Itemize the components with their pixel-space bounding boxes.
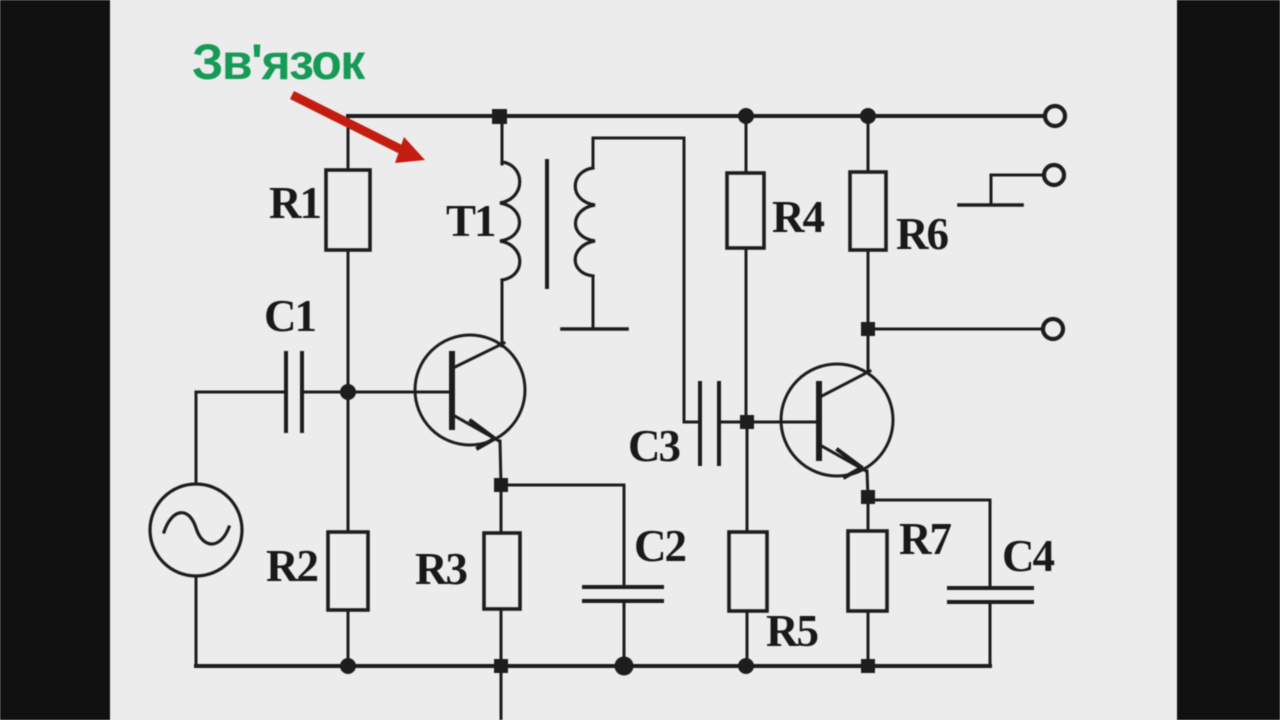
- svg-text:R1: R1: [269, 178, 320, 228]
- resistor R4: [727, 173, 764, 248]
- wire emitter node to C2: [501, 485, 624, 587]
- wire secondary to C3: [684, 138, 700, 422]
- node base of Q1 / C1 junction: [340, 384, 356, 400]
- node T1 primary at rail: [492, 109, 507, 124]
- resistor R5: [729, 532, 767, 611]
- wire T1 secondary bottom: [592, 276, 595, 329]
- wire R3 to ground rail: [500, 609, 503, 666]
- wire R7 to ground rail: [867, 611, 870, 666]
- wire C2 to ground rail: [623, 601, 626, 666]
- wire ground rail: [196, 664, 990, 668]
- wire T1 primary to Q1 collector: [501, 280, 504, 346]
- wire R6 to collector node: [867, 250, 870, 329]
- wire rail to R6: [867, 116, 870, 172]
- transistor Q2 collector stroke: [820, 371, 870, 397]
- wire T1 secondary top: [593, 138, 684, 168]
- node R3 at ground rail: [494, 659, 508, 673]
- transformer T1 secondary winding: [575, 168, 595, 276]
- node Q1 emitter junction: [494, 478, 508, 492]
- transistor Q1 collector stroke: [453, 343, 504, 368]
- capacitor C2: [584, 587, 662, 601]
- svg-text:C2: C2: [634, 521, 685, 571]
- resistor R2: [328, 532, 368, 610]
- svg-text:R3: R3: [415, 544, 466, 594]
- node R7 at ground rail: [861, 659, 875, 673]
- wire stub below ground rail: [500, 666, 503, 720]
- wire rail to T1 primary: [501, 116, 504, 164]
- wire emitter node to R3: [500, 485, 503, 533]
- node R5 at ground rail: [738, 658, 754, 674]
- ground bar at OUT2: [959, 203, 1022, 207]
- transistor Q2 body: [781, 364, 893, 476]
- node R2 at ground rail: [340, 658, 356, 674]
- terminal OUT1: [1045, 106, 1065, 126]
- terminal OUT3: [1043, 319, 1063, 339]
- wire emitter node to C4: [868, 500, 990, 588]
- wire R1 bottom to node: [347, 250, 350, 392]
- wire node to R2: [347, 392, 350, 532]
- wire Q2 emitter down: [867, 471, 868, 497]
- svg-text:R5: R5: [766, 606, 817, 656]
- wire node to Q2 collector: [867, 329, 870, 372]
- wire input top: [196, 391, 286, 394]
- svg-text:R7: R7: [899, 514, 951, 564]
- wire C1 to Q1 base: [302, 391, 452, 394]
- svg-text:R2: R2: [266, 541, 317, 591]
- wire source top lead: [195, 392, 198, 484]
- AC source sine wave: [164, 513, 229, 544]
- svg-text:R4: R4: [772, 192, 824, 242]
- wire R1 branch from rail: [347, 116, 350, 170]
- svg-text:T1: T1: [446, 196, 495, 246]
- wire node to Q2 base: [747, 421, 819, 424]
- transformer T1 core: [545, 161, 549, 287]
- node C2 at ground rail: [615, 657, 634, 676]
- svg-text:C4: C4: [1002, 531, 1054, 581]
- transistor Q2 emitter stroke with arrow: [820, 445, 866, 471]
- terminal OUT2: [1044, 165, 1064, 185]
- capacitor C4: [949, 588, 1032, 602]
- resistor R1: [326, 170, 370, 250]
- wire Q1 emitter down: [500, 441, 501, 485]
- svg-text:R6: R6: [896, 209, 948, 259]
- wire C3 to node: [719, 421, 747, 424]
- wire OUT2 step down: [990, 175, 993, 205]
- wire C4 to ground rail: [989, 602, 992, 666]
- node Q2 collector junction: [861, 322, 875, 336]
- wire node to R5: [746, 422, 749, 532]
- wire OUT2 lead: [991, 174, 1043, 177]
- annotation arrow: [296, 97, 402, 150]
- capacitor C1: [286, 353, 302, 431]
- wire R4 to node: [745, 248, 748, 422]
- transistor Q1 body: [415, 335, 525, 445]
- wire source bottom lead: [195, 576, 198, 666]
- node R4 at rail: [738, 108, 754, 124]
- ground bar of T1 secondary: [562, 327, 627, 331]
- capacitor C3: [700, 383, 719, 464]
- svg-text:C3: C3: [628, 421, 679, 471]
- wire rail to R4: [745, 116, 748, 173]
- svg-text:C1: C1: [264, 291, 315, 341]
- transformer T1 primary winding: [500, 162, 520, 280]
- resistor R7: [848, 531, 887, 611]
- node Q2 emitter junction: [861, 490, 875, 504]
- wire R5 to ground rail: [746, 611, 749, 666]
- AC source G1: [150, 484, 242, 576]
- transistor Q1 base bar: [449, 354, 455, 427]
- wire collector node to OUT3: [868, 328, 1040, 331]
- wire top supply rail: [348, 114, 1044, 118]
- transistor Q2 base bar: [816, 384, 822, 458]
- node R4 / Q2 base junction: [740, 415, 754, 429]
- transistor Q1 emitter stroke with arrow: [453, 415, 499, 441]
- svg-text:Зв'язок: Зв'язок: [192, 34, 366, 90]
- node R6 at rail: [860, 108, 876, 124]
- resistor R3: [484, 533, 520, 609]
- resistor R6: [850, 172, 886, 250]
- wire R2 bottom to ground rail: [347, 610, 350, 666]
- wire emitter node to R7: [867, 497, 870, 531]
